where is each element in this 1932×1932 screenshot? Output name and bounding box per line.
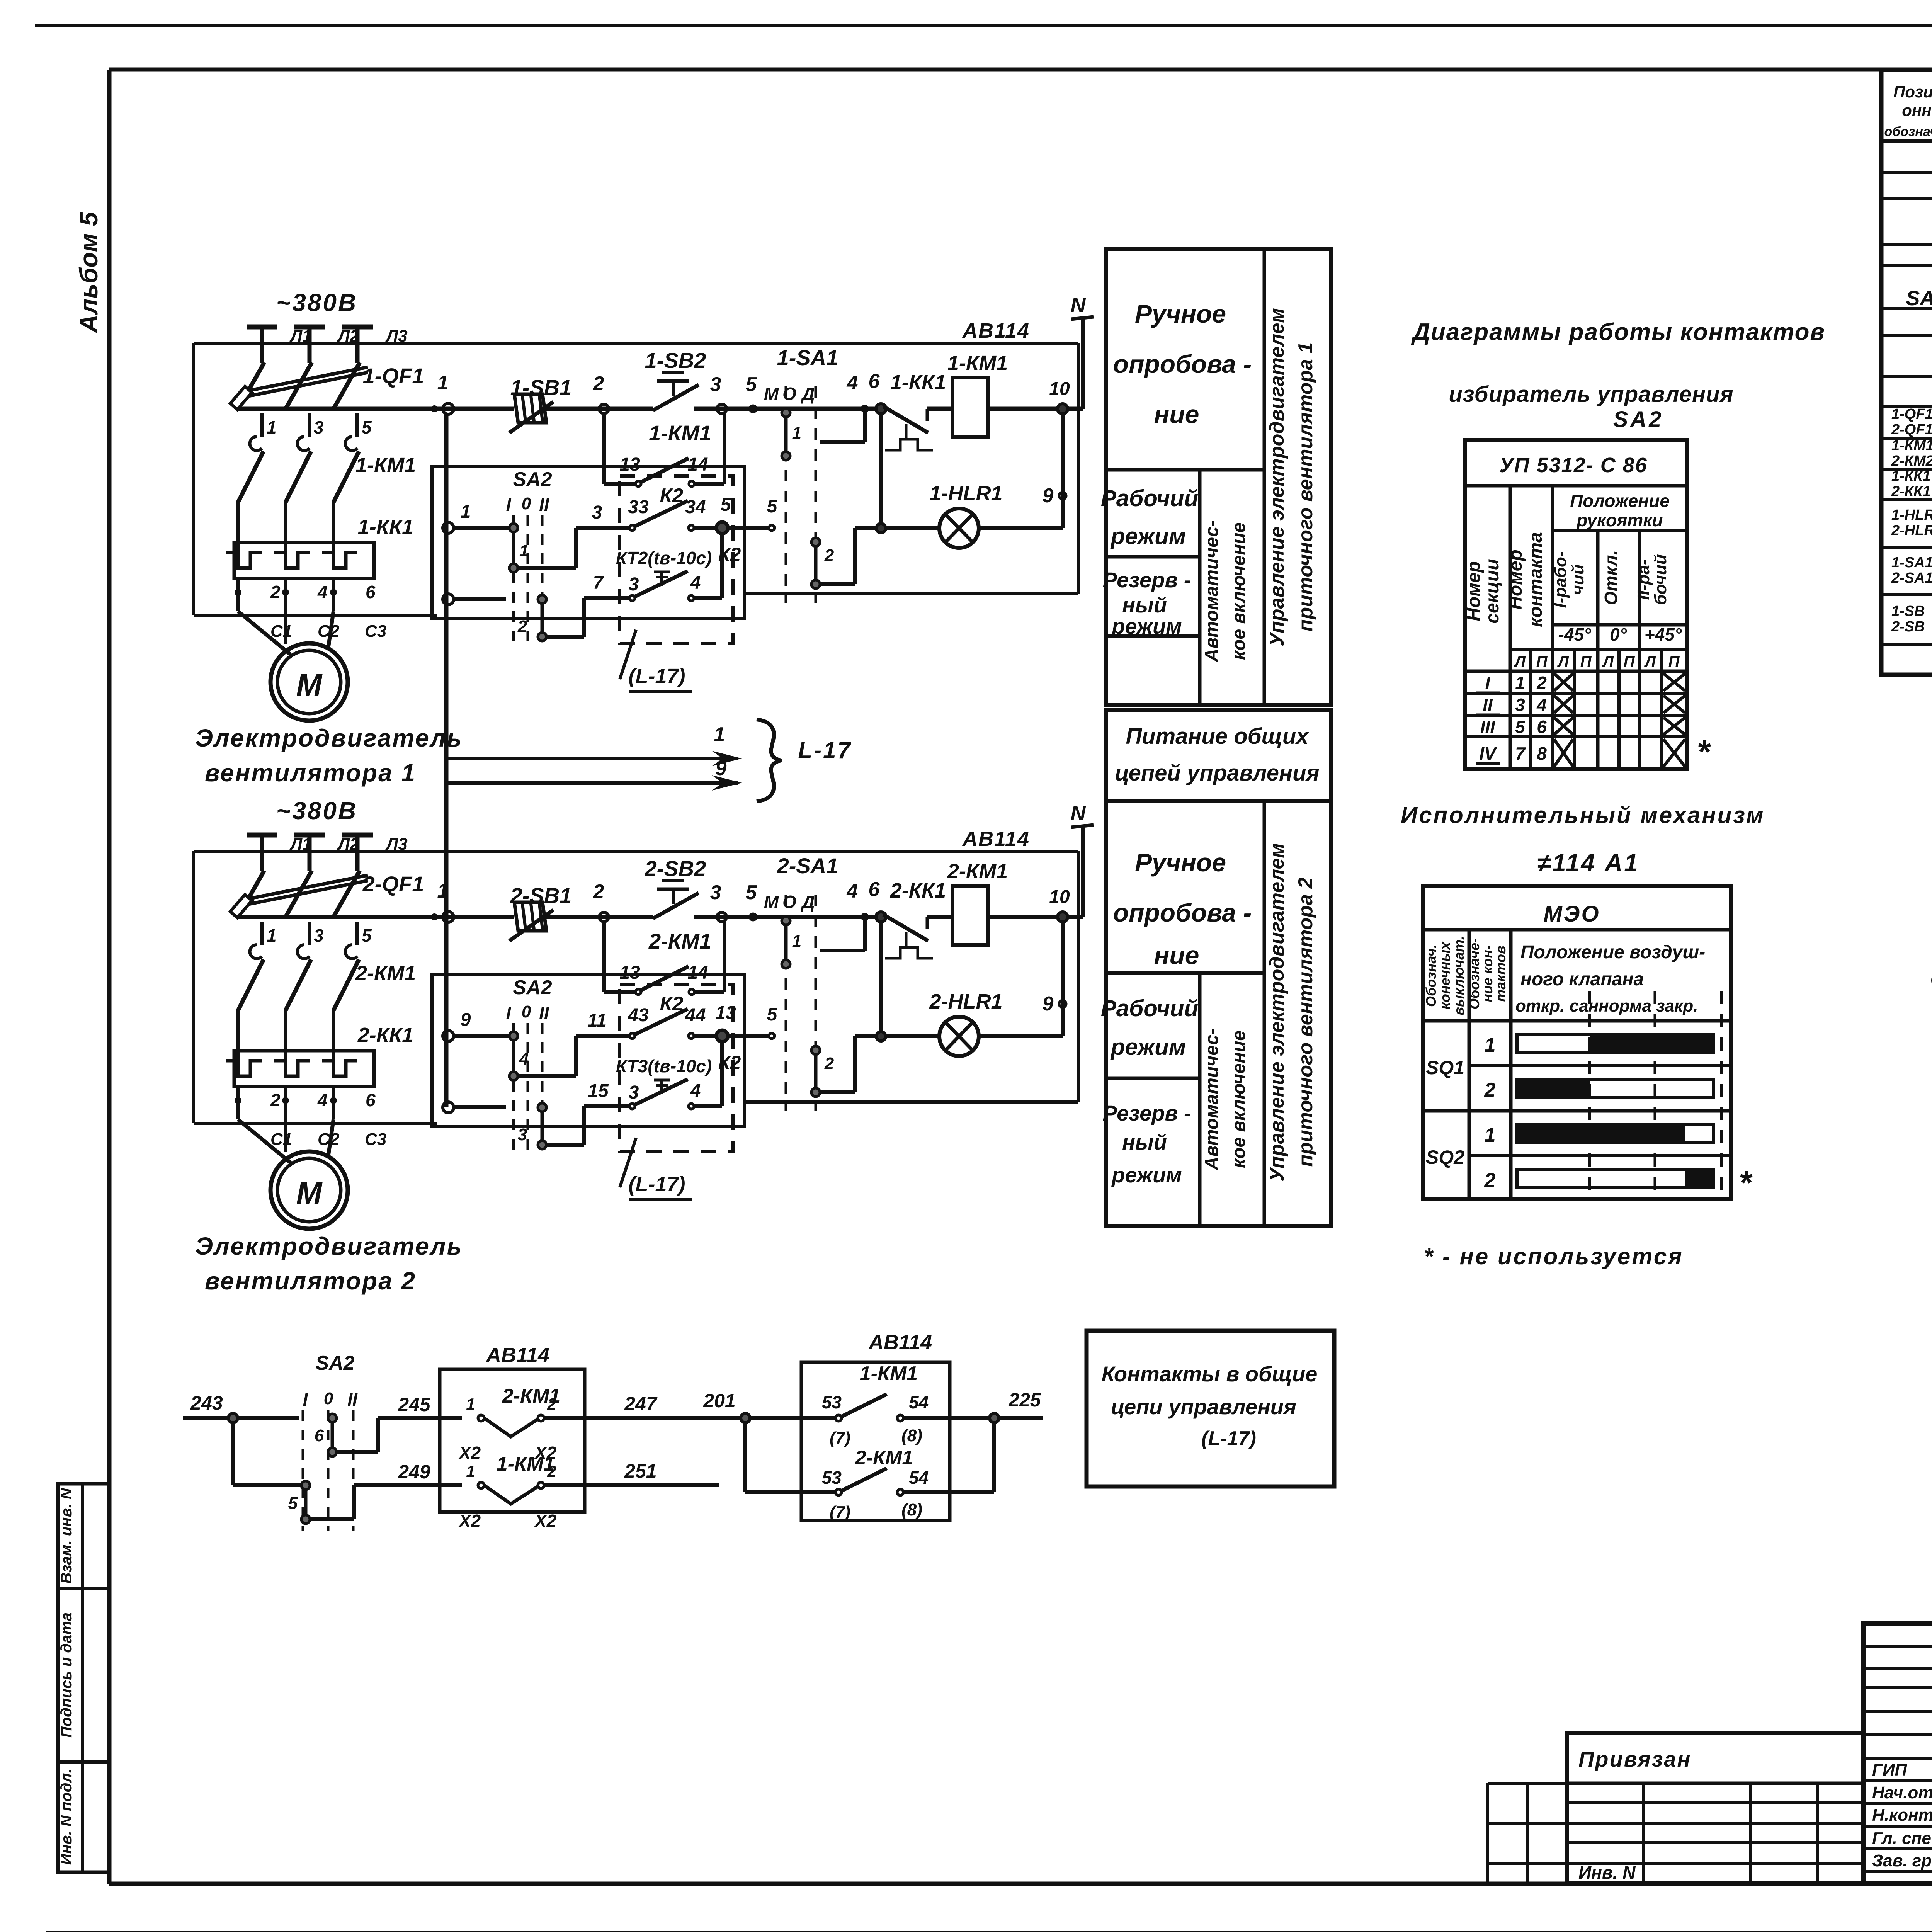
svg-text:1-HLR1: 1-HLR1 xyxy=(1891,507,1932,523)
svg-text:бочий: бочий xyxy=(1651,554,1670,605)
svg-text:3: 3 xyxy=(314,417,324,437)
svg-text:4: 4 xyxy=(519,1049,529,1068)
svg-text:44: 44 xyxy=(685,1005,706,1026)
svg-text:2: 2 xyxy=(593,881,604,903)
svg-text:2-КМ1: 2-КМ1 xyxy=(855,1447,913,1469)
svg-text:245: 245 xyxy=(398,1394,431,1415)
svg-text:Л: Л xyxy=(1557,653,1569,670)
svg-text:247: 247 xyxy=(624,1393,658,1415)
svg-text:2: 2 xyxy=(1484,1169,1496,1192)
svg-text:С1: С1 xyxy=(270,622,292,641)
node 225 xyxy=(992,1423,996,1492)
svg-text:Взам. инв. N: Взам. инв. N xyxy=(58,1488,75,1583)
svg-text:Привязан: Привязан xyxy=(1578,1747,1691,1771)
svg-text:ГИП: ГИП xyxy=(1872,1760,1908,1779)
svg-text:приточного вентилятора 2: приточного вентилятора 2 xyxy=(1294,877,1317,1167)
svg-text:2-SB: 2-SB xyxy=(1891,619,1925,635)
dashed position lines xyxy=(1588,991,1591,1199)
svg-text:Резерв -: Резерв - xyxy=(1103,568,1191,592)
function zone table circuit 2 xyxy=(1106,801,1331,1226)
title block xyxy=(1864,1624,1932,1884)
svg-text:АВ114: АВ114 xyxy=(962,827,1030,850)
svg-text:П: П xyxy=(1668,653,1680,670)
svg-text:5: 5 xyxy=(746,881,757,904)
svg-text:(L-17): (L-17) xyxy=(629,1173,685,1196)
terminal 4 circuit 1 xyxy=(862,406,867,412)
svg-text:SA2: SA2 xyxy=(513,468,552,491)
svg-text:режим: режим xyxy=(1110,523,1186,549)
svg-text:4: 4 xyxy=(847,880,858,902)
svg-text:IV: IV xyxy=(1479,743,1497,764)
svg-text:Управление электродвигателем: Управление электродвигателем xyxy=(1266,308,1288,646)
svg-text:N: N xyxy=(1071,294,1086,317)
node 9 circuit 2 xyxy=(1061,922,1065,1036)
svg-text:33: 33 xyxy=(628,497,649,517)
svg-text:приточного вентилятора 1: приточного вентилятора 1 xyxy=(1294,342,1317,632)
svg-text:К2: К2 xyxy=(660,485,684,507)
svg-text:Откл.: Откл. xyxy=(1601,550,1621,605)
sheet trim lines xyxy=(35,24,1932,27)
svg-text:Х2: Х2 xyxy=(458,1443,481,1463)
svg-text:2-КК1: 2-КК1 xyxy=(357,1024,413,1047)
svg-text:2-КМ1: 2-КМ1 xyxy=(355,962,416,985)
SA2 contact upper circuit 1 xyxy=(512,528,515,568)
svg-text:2-SB2: 2-SB2 xyxy=(645,856,706,881)
node stub lower SA2 circuit 2 xyxy=(443,1102,454,1113)
svg-text:выключат.: выключат. xyxy=(1451,936,1467,1015)
svg-text:1-SB: 1-SB xyxy=(1891,603,1925,619)
svg-text:SQ2: SQ2 xyxy=(1426,1146,1464,1168)
svg-text:Инв. N подл.: Инв. N подл. xyxy=(58,1769,75,1865)
svg-text:~380В: ~380В xyxy=(276,797,357,825)
svg-text:4: 4 xyxy=(317,582,328,602)
svg-text:243: 243 xyxy=(190,1392,223,1414)
svg-text:SA2: SA2 xyxy=(315,1352,354,1374)
timer contact КТ2(tв-10с) row circuit 1 xyxy=(546,635,584,639)
svg-text:избиратель управления: избиратель управления xyxy=(1449,382,1733,407)
svg-text:4: 4 xyxy=(1536,695,1547,715)
svg-text:АВ114: АВ114 xyxy=(485,1344,549,1367)
svg-text:* - не используется: * - не используется xyxy=(1424,1243,1684,1269)
svg-text:Позици-: Позици- xyxy=(1893,83,1932,101)
svg-text:1: 1 xyxy=(792,932,801,951)
svg-text:рукоятки: рукоятки xyxy=(1576,510,1663,530)
svg-text:201: 201 xyxy=(703,1390,735,1412)
svg-text:2: 2 xyxy=(1484,1079,1496,1101)
SA2 contact 5 xyxy=(231,1423,235,1485)
drawing frame xyxy=(109,68,1932,72)
X mark section II position I xyxy=(1554,696,1573,713)
svg-text:1-КК1: 1-КК1 xyxy=(358,515,413,539)
sheet reference (L-17) circuit 2 xyxy=(620,1138,636,1187)
svg-text:0: 0 xyxy=(522,494,531,513)
terminal 4 circuit 2 xyxy=(862,914,867,920)
svg-text:1: 1 xyxy=(437,372,449,394)
left margin stamp boxes xyxy=(58,1484,109,1872)
svg-text:1: 1 xyxy=(1515,673,1525,693)
node stub upper SA2 circuit 2 xyxy=(443,1031,454,1041)
svg-text:Схема регулирования - лист 18: Схема регулирования - лист 18 xyxy=(1930,966,1932,993)
svg-text:1-КМ1: 1-КМ1 xyxy=(860,1362,918,1385)
svg-text:1-QF1: 1-QF1 xyxy=(1891,406,1932,422)
svg-text:7: 7 xyxy=(593,573,604,593)
phase terminal Л3 circuit 2 xyxy=(342,833,373,838)
svg-text:~380В: ~380В xyxy=(276,289,357,316)
common control feed zone box xyxy=(1106,710,1331,801)
svg-text:5: 5 xyxy=(362,925,372,946)
svg-text:0: 0 xyxy=(522,1002,531,1021)
node 9 circuit 1 xyxy=(1061,413,1065,528)
svg-text:Контакты в общие: Контакты в общие xyxy=(1102,1362,1318,1386)
svg-text:опробова -: опробова - xyxy=(1113,350,1252,378)
svg-text:2-КК1: 2-КК1 xyxy=(890,879,946,902)
node 5 circuit 2 xyxy=(750,914,756,920)
svg-text:Д: Д xyxy=(800,892,815,912)
svg-text:1: 1 xyxy=(1485,1124,1496,1146)
svg-text:Ручное: Ручное xyxy=(1135,848,1226,877)
svg-text:Автоматичес-: Автоматичес- xyxy=(1202,1029,1222,1171)
svg-text:С3: С3 xyxy=(365,1130,386,1149)
circuit breaker 2-QF1 xyxy=(238,871,264,917)
svg-text:*: * xyxy=(1697,734,1711,770)
svg-text:Исполнительный механизм: Исполнительный механизм xyxy=(1401,802,1765,828)
svg-text:9: 9 xyxy=(716,757,727,780)
svg-text:Л: Л xyxy=(1602,653,1614,670)
svg-text:Автоматичес-: Автоматичес- xyxy=(1202,520,1222,663)
inner control box circuit 2 xyxy=(432,975,744,1126)
main control bus node 1 circuit 2 xyxy=(238,915,514,919)
svg-text:2-HLR1: 2-HLR1 xyxy=(1891,522,1932,539)
svg-text:34: 34 xyxy=(685,497,706,517)
svg-text:5: 5 xyxy=(1515,717,1526,737)
svg-text:14: 14 xyxy=(687,454,708,475)
node 10 circuit 1 xyxy=(1058,404,1068,414)
relay contact К2 row circuit 2 xyxy=(518,1074,576,1078)
svg-text:обозначение: обозначение xyxy=(1884,124,1932,139)
svg-text:III: III xyxy=(1480,717,1496,737)
svg-text:1-КМ1: 1-КМ1 xyxy=(649,421,711,445)
left small grid xyxy=(1488,1782,1567,1785)
svg-text:1-SA1: 1-SA1 xyxy=(777,345,838,370)
svg-text:Положение: Положение xyxy=(1570,491,1670,511)
svg-text:АВ114: АВ114 xyxy=(962,319,1030,342)
svg-text:М: М xyxy=(764,892,779,912)
svg-text:2: 2 xyxy=(824,546,834,565)
svg-text:ние: ние xyxy=(1154,400,1199,429)
relay contact К2 row circuit 1 xyxy=(518,566,576,570)
svg-text:Номер: Номер xyxy=(1505,549,1526,610)
svg-text:С3: С3 xyxy=(365,622,386,641)
note box: contacts into common control circuits xyxy=(1087,1331,1334,1486)
svg-text:+45°: +45° xyxy=(1645,624,1682,645)
svg-text:15: 15 xyxy=(588,1081,609,1101)
svg-text:10: 10 xyxy=(1049,379,1070,399)
svg-text:II: II xyxy=(539,495,549,515)
svg-text:6: 6 xyxy=(1537,717,1547,737)
svg-text:II: II xyxy=(347,1389,358,1410)
svg-text:КТ2(tв-10с): КТ2(tв-10с) xyxy=(616,548,712,568)
svg-text:цепи управления: цепи управления xyxy=(1111,1395,1296,1419)
svg-text:2: 2 xyxy=(824,1054,834,1073)
svg-text:Нач.отд.: Нач.отд. xyxy=(1872,1783,1932,1802)
svg-text:6: 6 xyxy=(315,1426,324,1445)
phase terminal Л2 circuit 2 xyxy=(294,833,325,838)
svg-text:1: 1 xyxy=(466,1462,475,1480)
svg-text:Н.контр.: Н.контр. xyxy=(1872,1806,1932,1825)
svg-text:П: П xyxy=(1624,653,1635,670)
svg-text:≠114 А1: ≠114 А1 xyxy=(1537,849,1639,877)
svg-text:13: 13 xyxy=(619,454,640,475)
svg-text:вентилятора 1: вентилятора 1 xyxy=(205,759,416,787)
svg-text:П: П xyxy=(1536,653,1548,670)
svg-text:секции: секции xyxy=(1482,559,1503,623)
svg-text:1-SA1: 1-SA1 xyxy=(1891,554,1932,571)
dashed relay box circuit 1 xyxy=(620,476,733,643)
svg-text:1: 1 xyxy=(267,417,277,437)
wires to sheet L-17 with arrows xyxy=(446,757,738,760)
node stub lower SA2 circuit 1 xyxy=(443,594,454,605)
svg-text:режим: режим xyxy=(1110,1034,1186,1060)
svg-text:2: 2 xyxy=(270,1090,281,1110)
svg-text:5: 5 xyxy=(767,496,778,517)
svg-text:(L-17): (L-17) xyxy=(629,665,685,688)
SA2 contact lower circuit 1 xyxy=(541,599,544,637)
svg-text:Номер: Номер xyxy=(1464,561,1484,621)
svg-text:251: 251 xyxy=(624,1460,656,1482)
svg-text:5: 5 xyxy=(746,373,757,396)
svg-text:2: 2 xyxy=(547,1395,556,1413)
node 3 circuit 1 xyxy=(717,404,726,413)
svg-text:П: П xyxy=(1580,653,1592,670)
svg-text:1-КМ1: 1-КМ1 xyxy=(497,1453,554,1475)
svg-text:1: 1 xyxy=(466,1395,475,1413)
svg-text:Электродвигатель: Электродвигатель xyxy=(195,1232,463,1260)
parts list table xyxy=(1881,70,1932,675)
svg-text:2-QF1: 2-QF1 xyxy=(1891,422,1932,438)
svg-text:2-QF1: 2-QF1 xyxy=(362,872,424,896)
svg-text:АВ114: АВ114 xyxy=(868,1331,932,1354)
node stub upper SA2 circuit 1 xyxy=(443,522,454,533)
svg-text:Подпись и дата: Подпись и дата xyxy=(58,1612,75,1738)
circuit breaker 1-QF1 xyxy=(238,362,264,409)
svg-text:SA2: SA2 xyxy=(1613,407,1664,432)
motor M circuit 2 xyxy=(270,1151,348,1229)
svg-text:Рабочий: Рабочий xyxy=(1101,485,1198,511)
svg-text:9: 9 xyxy=(461,1010,471,1030)
svg-text:К2: К2 xyxy=(660,993,684,1015)
svg-text:МЭО: МЭО xyxy=(1543,901,1600,927)
svg-text:Положение воздуш-: Положение воздуш- xyxy=(1520,942,1705,963)
svg-text:ный: ный xyxy=(1122,593,1167,617)
inner control box circuit 1 xyxy=(432,466,744,618)
svg-text:6: 6 xyxy=(366,582,376,602)
svg-text:54: 54 xyxy=(909,1392,929,1412)
svg-text:Обознач.: Обознач. xyxy=(1423,944,1439,1007)
svg-text:SA2: SA2 xyxy=(513,976,552,999)
svg-text:2-SA1: 2-SA1 xyxy=(777,854,838,878)
svg-text:вентилятора 2: вентилятора 2 xyxy=(205,1267,416,1295)
svg-text:9: 9 xyxy=(1043,485,1054,507)
svg-text:II: II xyxy=(539,1003,549,1023)
svg-text:опробова -: опробова - xyxy=(1113,898,1252,927)
box AB114 left aux xyxy=(440,1369,585,1512)
SA1 contact Д circuit 1 xyxy=(814,542,818,584)
svg-text:54: 54 xyxy=(909,1468,929,1488)
svg-text:конечных: конечных xyxy=(1437,941,1453,1010)
SA1 contact М circuit 1 xyxy=(784,413,788,456)
function zone table circuit 1 xyxy=(1106,249,1331,705)
enclosure AB114 outline circuit 1 xyxy=(194,614,437,617)
svg-text:-45°: -45° xyxy=(1558,624,1591,645)
svg-text:3: 3 xyxy=(710,881,721,904)
svg-text:КТ3(tв-10с): КТ3(tв-10с) xyxy=(616,1056,712,1076)
svg-text:1-КК1: 1-КК1 xyxy=(890,371,946,394)
svg-text:С1: С1 xyxy=(270,1130,292,1149)
svg-text:2-HLR1: 2-HLR1 xyxy=(929,990,1002,1013)
svg-text:Л: Л xyxy=(1514,653,1526,670)
svg-text:Инв. N: Инв. N xyxy=(1578,1862,1636,1883)
svg-text:6: 6 xyxy=(366,1090,376,1110)
svg-text:4: 4 xyxy=(317,1090,328,1110)
X mark section II position II xyxy=(1663,696,1685,713)
svg-text:0: 0 xyxy=(324,1389,333,1408)
svg-text:II: II xyxy=(1483,695,1493,715)
svg-text:Рабочий: Рабочий xyxy=(1101,995,1198,1021)
svg-text:Х2: Х2 xyxy=(534,1511,557,1531)
svg-text:откр. саннорма закр.: откр. саннорма закр. xyxy=(1515,997,1698,1015)
svg-text:3: 3 xyxy=(314,925,324,946)
svg-text:ние: ние xyxy=(1154,941,1199,969)
svg-text:4: 4 xyxy=(847,372,858,394)
phase terminal Л1 circuit 2 xyxy=(247,833,277,838)
svg-text:I-рабо-: I-рабо- xyxy=(1551,551,1570,608)
X mark section III position II xyxy=(1663,718,1685,735)
svg-text:1-КК1: 1-КК1 xyxy=(1891,468,1931,484)
svg-text:1-КМ1: 1-КМ1 xyxy=(355,454,416,477)
node 3 circuit 2 xyxy=(717,912,726,922)
terminal 6 circuit 2 xyxy=(876,912,886,922)
X mark section IV position II xyxy=(1663,739,1685,767)
svg-text:225: 225 xyxy=(1008,1389,1041,1411)
sheet reference (L-17) circuit 1 xyxy=(620,630,636,679)
enclosure AB114 outline circuit 2 xyxy=(194,1122,437,1125)
node 5 circuit 1 xyxy=(750,406,756,412)
svg-text:2: 2 xyxy=(593,372,604,395)
phase terminal Л1 circuit 1 xyxy=(247,325,277,330)
svg-text:5: 5 xyxy=(362,417,372,437)
svg-text:1: 1 xyxy=(714,723,725,746)
svg-text:3: 3 xyxy=(629,1082,639,1103)
box AB114 right aux xyxy=(801,1362,950,1520)
phase terminal Л2 circuit 1 xyxy=(294,325,325,330)
svg-text:Гл. спец.: Гл. спец. xyxy=(1872,1829,1932,1848)
svg-text:1: 1 xyxy=(461,502,471,522)
svg-text:(7): (7) xyxy=(830,1429,850,1447)
svg-text:0°: 0° xyxy=(1610,624,1627,645)
svg-text:5: 5 xyxy=(767,1004,778,1025)
svg-text:1: 1 xyxy=(792,423,801,442)
phase terminal Л3 circuit 1 xyxy=(342,325,373,330)
svg-text:L-17: L-17 xyxy=(798,737,852,763)
svg-text:ный: ный xyxy=(1122,1130,1167,1154)
svg-text:N: N xyxy=(1071,802,1086,825)
svg-text:11: 11 xyxy=(587,1010,607,1031)
svg-text:ного клапана: ного клапана xyxy=(1520,969,1644,990)
svg-text:53: 53 xyxy=(822,1468,842,1488)
svg-text:53: 53 xyxy=(822,1392,842,1412)
node 2 circuit 1 xyxy=(599,404,609,413)
svg-text:3: 3 xyxy=(518,1125,527,1144)
svg-text:1-SB2: 1-SB2 xyxy=(645,348,706,372)
svg-text:Питание общих: Питание общих xyxy=(1126,724,1310,749)
svg-text:2: 2 xyxy=(547,1462,556,1480)
X mark section III position I xyxy=(1554,718,1573,735)
svg-text:(L-17): (L-17) xyxy=(1201,1427,1256,1450)
node 2 circuit 2 xyxy=(599,912,609,922)
svg-text:5: 5 xyxy=(288,1494,298,1513)
wire Д-path circuit 1 xyxy=(863,412,867,442)
svg-text:2: 2 xyxy=(270,582,281,602)
wire: common feeder from node 1 down to circuit 2 xyxy=(444,414,449,1107)
svg-text:Диаграммы работы контактов: Диаграммы работы контактов xyxy=(1411,319,1825,345)
svg-text:I: I xyxy=(303,1389,308,1410)
svg-text:тактов: тактов xyxy=(1493,946,1509,1002)
svg-text:9: 9 xyxy=(1043,993,1054,1015)
attachment stamp xyxy=(1567,1733,1864,1883)
svg-text:режим: режим xyxy=(1111,1163,1182,1187)
svg-text:1-HLR1: 1-HLR1 xyxy=(929,482,1002,505)
svg-text:1: 1 xyxy=(519,541,529,560)
svg-text:43: 43 xyxy=(628,1005,649,1026)
travel bars xyxy=(1517,1034,1714,1052)
svg-text:II-ра-: II-ра- xyxy=(1634,559,1653,600)
svg-text:Резерв -: Резерв - xyxy=(1103,1101,1191,1125)
svg-text:цепей управления: цепей управления xyxy=(1115,760,1319,786)
svg-text:1-КМ1: 1-КМ1 xyxy=(1891,437,1932,454)
svg-text:(8): (8) xyxy=(901,1426,922,1445)
motor M circuit 1 xyxy=(270,643,348,721)
svg-text:Ручное: Ручное xyxy=(1135,299,1226,328)
svg-text:1-QF1: 1-QF1 xyxy=(363,364,424,388)
SA1 contact М circuit 2 xyxy=(784,921,788,964)
SA2 contact upper circuit 2 xyxy=(512,1036,515,1076)
svg-text:онное: онное xyxy=(1902,101,1932,119)
svg-text:Х2: Х2 xyxy=(458,1511,481,1531)
svg-text:Альбом 5: Альбом 5 xyxy=(74,211,103,333)
svg-text:7: 7 xyxy=(1515,743,1526,764)
svg-text:6: 6 xyxy=(869,370,880,393)
svg-text:(7): (7) xyxy=(830,1503,850,1522)
svg-text:3: 3 xyxy=(592,502,602,523)
svg-text:I: I xyxy=(506,495,512,515)
svg-text:Л: Л xyxy=(1644,653,1656,670)
svg-text:Электродвигатель: Электродвигатель xyxy=(195,724,463,752)
svg-text:6: 6 xyxy=(869,878,880,901)
svg-text:14: 14 xyxy=(687,963,708,983)
svg-text:кое включение: кое включение xyxy=(1229,1031,1249,1168)
SA2 contact 6 xyxy=(237,1416,299,1420)
svg-text:4: 4 xyxy=(690,573,701,593)
table: MEO actuator contacts xyxy=(1423,886,1731,1199)
svg-text:3: 3 xyxy=(710,373,721,396)
svg-text:контакта: контакта xyxy=(1526,532,1546,627)
svg-text:чий: чий xyxy=(1568,564,1587,595)
svg-text:1: 1 xyxy=(1485,1034,1496,1056)
svg-text:(8): (8) xyxy=(901,1500,922,1519)
main control bus node 1 circuit 1 xyxy=(238,407,514,411)
svg-text:2-КМ2: 2-КМ2 xyxy=(1891,453,1932,469)
X mark section IV position I xyxy=(1554,739,1573,767)
